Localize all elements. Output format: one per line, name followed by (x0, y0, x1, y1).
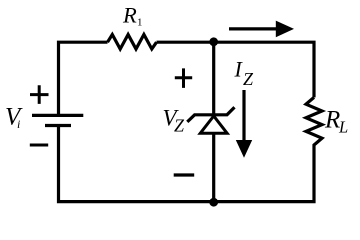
node A (top junction) (209, 37, 218, 46)
zener diode VZ (187, 107, 234, 133)
label Vi (5, 104, 23, 132)
plus sign (battery) (30, 85, 49, 104)
label VZ (163, 105, 186, 135)
current arrow (top, to the right) (229, 21, 294, 38)
wire: RL bottom to bottom-right corner to node B (214, 148, 314, 202)
svg-text:i: i (17, 117, 20, 131)
minus sign (zener bottom) (174, 173, 195, 176)
svg-text:Z: Z (174, 116, 185, 136)
wire: battery positive up left side to top-left corner over to R1 (59, 42, 108, 116)
svg-text:Z: Z (243, 69, 254, 89)
svg-text:R: R (324, 106, 340, 133)
resistor R1 (108, 35, 157, 50)
current arrow IZ (downward) (236, 90, 252, 158)
wire: R1 to node A (157, 41, 214, 44)
svg-text:L: L (338, 117, 348, 136)
plus sign (zener top) (175, 68, 192, 88)
node B (bottom junction) (209, 198, 218, 207)
wire: zener anode down to node B (212, 133, 215, 201)
wire: node B to bottom-left corner up to battery negative (59, 126, 214, 202)
wire: node A to top-right corner and down to RL (214, 42, 314, 97)
label RL (324, 106, 348, 136)
minus sign (battery) (30, 144, 48, 147)
label IZ (234, 57, 255, 89)
wire: node A down to zener cathode (212, 42, 215, 115)
resistor RL (306, 97, 322, 147)
svg-text:1: 1 (137, 16, 143, 28)
svg-text:R: R (122, 3, 137, 28)
svg-text:I: I (234, 57, 244, 82)
label R1 (122, 3, 143, 29)
battery Vi (32, 115, 83, 125)
